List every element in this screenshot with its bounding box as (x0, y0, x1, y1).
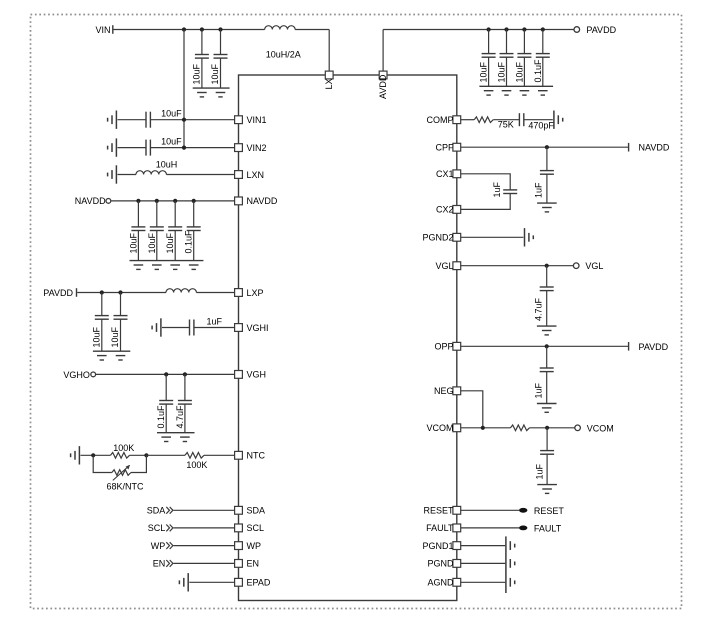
pin name VCOM (427, 423, 454, 433)
value label C11 (165, 232, 175, 253)
svg-text:75K: 75K (498, 119, 514, 129)
capacitor C22 1uF (540, 368, 554, 372)
port marker RESET (519, 508, 527, 513)
pin name NAVDD (247, 196, 278, 206)
resistor R4 (511, 425, 530, 431)
port tick PAVDD right (628, 342, 630, 351)
value label RT1 (107, 482, 145, 492)
wire VGHO rail (96, 373, 235, 375)
ground bar PGND1 PGND AGND (505, 536, 507, 593)
svg-text:VIN: VIN (95, 25, 110, 35)
pin VGL (453, 262, 461, 270)
svg-text:10uH/2A: 10uH/2A (266, 50, 301, 60)
port chevron SDA (166, 507, 173, 514)
wire C18 to ground (524, 119, 553, 121)
value label C20 (492, 181, 502, 197)
svg-text:VGH: VGH (247, 370, 267, 380)
capacitor C2 10uF (214, 55, 228, 59)
terminal NAVDD (106, 199, 111, 204)
pin name PGND (427, 559, 454, 569)
capacitor C7 10uF (146, 112, 150, 128)
wire C19 to ground (546, 174, 548, 203)
wire C14 to ground (120, 319, 122, 351)
capacitor C14 10uF (114, 316, 128, 320)
svg-text:0.1uF: 0.1uF (156, 405, 166, 429)
svg-text:10uF: 10uF (497, 61, 507, 82)
wire C5 to ground (523, 57, 525, 86)
svg-text:OPP: OPP (434, 342, 453, 352)
terminal VCOM (575, 425, 581, 431)
svg-text:4.7uF: 4.7uF (175, 405, 185, 429)
pin name CPF (436, 143, 455, 153)
ground C15 (152, 318, 161, 336)
inductor L3 (166, 289, 196, 293)
junction VIN/C2 (218, 27, 222, 31)
pin CPF (453, 143, 461, 151)
svg-text:VIN1: VIN1 (247, 115, 267, 125)
pin name LXN (247, 170, 265, 180)
capacitor C10 10uF (150, 227, 164, 231)
pin VGH (235, 371, 243, 379)
capacitor C13 10uF (95, 316, 109, 320)
pin name CX2 (436, 205, 454, 215)
pin EN (235, 560, 243, 568)
wire CPF to NAVDD (461, 146, 628, 148)
wire C20 to CX2 (461, 194, 510, 210)
pin name EN (247, 559, 260, 569)
value label C13 (92, 326, 102, 347)
wire to C9 (137, 201, 139, 227)
wire R3 to C18 (493, 119, 519, 121)
wire PGND2 (461, 236, 524, 238)
wire C12 to ground (193, 231, 195, 261)
ground C1 C2 (193, 88, 230, 97)
junction VG/C21 (545, 264, 549, 268)
pin FAULT (453, 524, 461, 532)
wire C23 to ground (546, 454, 548, 484)
node PAVDD label (586, 25, 616, 35)
wire C8 to VIN2 (150, 147, 234, 149)
wire C4 to ground (506, 57, 508, 86)
svg-text:AGND: AGND (427, 578, 454, 588)
wire to C14 (120, 293, 122, 316)
svg-text:CPF: CPF (436, 143, 455, 153)
node SDA label (147, 506, 166, 516)
value label C2 (210, 63, 220, 84)
wire C13 to ground (101, 319, 103, 351)
svg-text:4.7uF: 4.7uF (534, 297, 544, 321)
ground C21 (537, 326, 557, 335)
junction AVDD/C6 (541, 27, 545, 31)
junction NTC right (144, 453, 148, 457)
wire to C1 (201, 30, 203, 55)
capacitor C6 0.1uF (536, 54, 550, 58)
svg-text:SCL: SCL (247, 523, 265, 533)
pin name LXP (247, 288, 264, 298)
ground PGND2 (525, 228, 534, 246)
wire NEG to VCOM node (461, 391, 483, 428)
pin name CX1 (436, 169, 454, 179)
wire VG to VGL (461, 265, 574, 267)
svg-text:NAVDD: NAVDD (247, 196, 278, 206)
junction PAVDD/C14 (118, 290, 122, 294)
wire R2 to NTC pin (204, 454, 235, 456)
svg-text:10uF: 10uF (161, 136, 182, 146)
svg-text:SCL: SCL (148, 523, 166, 533)
junction NAVDD/C10 (155, 199, 159, 203)
pin NTC (235, 451, 243, 459)
pin name AVDD (378, 74, 388, 99)
wire to C13 (101, 293, 103, 316)
value label C16 (156, 405, 166, 429)
value label C12 (184, 230, 194, 254)
svg-text:CX1: CX1 (436, 169, 454, 179)
svg-text:PGND: PGND (427, 559, 454, 569)
value label C1 (192, 63, 202, 84)
wire to C10 (156, 201, 158, 227)
pin name RESET (423, 506, 454, 516)
pin name PGND2 (422, 233, 453, 243)
ground C19 (537, 203, 557, 212)
value label C4 (497, 61, 507, 82)
value label R2 (186, 460, 207, 470)
junction CPF/C19 (545, 145, 549, 149)
wire L2 to LXN (166, 174, 234, 176)
pin CX1 (453, 170, 461, 178)
pin CX2 (453, 206, 461, 214)
ground C16 C17 (157, 433, 195, 442)
value label C7 (161, 109, 182, 119)
terminal VGHO (91, 372, 96, 377)
value label C14 (110, 326, 120, 347)
pin WP (235, 542, 243, 550)
svg-text:PAVDD: PAVDD (43, 288, 73, 298)
port tick PAVDD (76, 288, 78, 297)
capacitor C17 (178, 401, 192, 405)
pin name VIN2 (247, 143, 267, 153)
svg-text:100K: 100K (186, 460, 207, 470)
pin NAVDD (235, 197, 243, 205)
value label C18 (528, 120, 554, 130)
capacitor C5 10uF (517, 54, 531, 58)
pin name NEG (434, 386, 454, 396)
svg-text:LXP: LXP (247, 288, 264, 298)
pin LXP (235, 289, 243, 297)
wire C15 to VGHI (194, 327, 235, 329)
svg-text:SDA: SDA (247, 506, 266, 516)
junction AVDD/C5 (522, 27, 526, 31)
port chevron WP (166, 542, 173, 549)
pin LXN (235, 171, 243, 179)
ground COMP (554, 111, 563, 129)
ground VIN1 cap (108, 111, 117, 129)
wire AVDD pin up (382, 30, 384, 72)
pin PGND2 (453, 233, 461, 241)
ground C9-C12 (130, 261, 204, 270)
svg-text:10uF: 10uF (514, 61, 524, 82)
junction AVDD/C4 (504, 27, 508, 31)
resistor R2 100K (185, 453, 204, 459)
wire C21 to ground (546, 291, 548, 327)
wire EPAD (189, 581, 234, 583)
wire VIN rail (114, 29, 265, 31)
capacitor C19 1uF (540, 171, 554, 175)
capacitor C15 1uF (190, 320, 194, 336)
pin AVDD (379, 71, 387, 79)
svg-text:SDA: SDA (147, 506, 166, 516)
pin name SCL (247, 523, 265, 533)
svg-text:NAVDD: NAVDD (75, 196, 106, 206)
pin COMP (453, 116, 461, 124)
ground C22 (537, 404, 557, 413)
pin name SDA (247, 506, 266, 516)
wire VIN down to VIN1/VIN2 (183, 30, 185, 148)
wire SDA (174, 509, 235, 511)
junction NAVDD/C12 (192, 199, 196, 203)
wire gnd to L2 (118, 174, 137, 176)
wire C16 to ground (165, 404, 167, 433)
node VGHO label (63, 370, 90, 380)
svg-text:EN: EN (247, 559, 260, 569)
ground L2 (108, 165, 117, 183)
capacitor C16 (159, 401, 173, 405)
capacitor C4 10uF (500, 54, 514, 58)
pin name VGHI (247, 323, 269, 333)
ground VIN2 cap (108, 138, 117, 156)
wire C3 to ground (488, 57, 490, 86)
pin PGND1 (453, 542, 461, 550)
wire to C21 (546, 266, 548, 287)
svg-text:10uF: 10uF (210, 63, 220, 84)
ground NTC network (71, 446, 80, 464)
node NAVDD label (75, 196, 106, 206)
svg-text:VGHO: VGHO (63, 370, 90, 380)
wire to C4 (506, 30, 508, 54)
wire PGND1 (461, 545, 505, 547)
value label C21 (534, 297, 544, 321)
inductor L2 10uH (136, 171, 166, 175)
ground C3-C6 (479, 86, 553, 95)
svg-text:PGND1: PGND1 (422, 541, 453, 551)
ground EPAD (179, 573, 188, 591)
wire down to LX pin (328, 30, 330, 72)
wire L3 to LXP (196, 292, 234, 294)
ground C23 (537, 485, 557, 494)
svg-text:VIN2: VIN2 (247, 143, 267, 153)
value label C5 (514, 61, 524, 82)
svg-text:1uF: 1uF (207, 317, 223, 327)
wire AGND (461, 581, 505, 583)
capacitor C1 10uF (195, 55, 209, 59)
wire to C17 (184, 374, 186, 400)
wire OPP to PAVDD (461, 345, 628, 347)
svg-text:470pF: 470pF (528, 120, 554, 130)
wire to C12 (193, 201, 195, 227)
node WP label (151, 541, 166, 551)
wire R4 to VCOM terminal (530, 427, 575, 429)
pin AGND (453, 578, 461, 586)
svg-text:EN: EN (153, 559, 166, 569)
svg-text:NAVDD: NAVDD (639, 143, 670, 153)
capacitor C12 0.1uF (187, 227, 201, 231)
svg-text:RESET: RESET (534, 506, 565, 516)
svg-text:CX2: CX2 (436, 205, 454, 215)
pin VIN2 (235, 144, 243, 152)
wire C11 to ground (174, 231, 176, 261)
wire NAVDD rail (111, 200, 234, 202)
svg-text:VGL: VGL (435, 261, 453, 271)
port marker FAULT (519, 526, 527, 531)
IC U1 main body (239, 75, 457, 601)
value label L1 (266, 50, 301, 60)
terminal VGL (573, 263, 579, 269)
value label C22 (534, 382, 544, 398)
svg-text:1uF: 1uF (534, 463, 544, 479)
value label C23 (534, 463, 544, 479)
value label C3 (479, 61, 489, 82)
svg-text:1uF: 1uF (534, 382, 544, 398)
value label C19 (534, 182, 544, 198)
node VCOM label (587, 423, 614, 433)
svg-text:VGL: VGL (585, 261, 603, 271)
port tick VIN (112, 25, 114, 34)
wire L1 to LX (295, 29, 329, 31)
wire SCL (174, 527, 235, 529)
pin name EPAD (247, 578, 271, 588)
pin name PGND1 (422, 541, 453, 551)
svg-text:FAULT: FAULT (534, 523, 562, 533)
ground marks PGND (510, 559, 514, 568)
wire gnd to C7 (118, 119, 147, 121)
svg-text:1uF: 1uF (492, 181, 502, 197)
svg-text:10uF: 10uF (161, 109, 182, 119)
inductor L1 10uH/2A (265, 26, 295, 30)
wire C9 to ground (137, 231, 139, 261)
pin SCL (235, 524, 243, 532)
svg-text:PAVDD: PAVDD (586, 25, 616, 35)
wire C22 to ground (546, 372, 548, 404)
pin RESET (453, 506, 461, 514)
junction PAVDD/C13 (100, 290, 104, 294)
value label R1 (113, 443, 134, 453)
svg-text:WP: WP (151, 541, 166, 551)
pin name VGL (435, 261, 453, 271)
svg-text:PAVDD: PAVDD (639, 342, 669, 352)
svg-text:10uF: 10uF (165, 232, 175, 253)
terminal PAVDD (574, 27, 580, 33)
svg-text:PGND2: PGND2 (422, 233, 453, 243)
pin name WP (247, 541, 262, 551)
junction NEG/VCOM (481, 426, 485, 430)
svg-text:10uF: 10uF (192, 63, 202, 84)
svg-text:NEG: NEG (434, 386, 454, 396)
wire to C23 (546, 428, 548, 451)
svg-text:WP: WP (247, 541, 262, 551)
svg-text:10uF: 10uF (147, 232, 157, 253)
wire to C3 (488, 30, 490, 54)
pin EPAD (235, 578, 243, 586)
wire to C5 (523, 30, 525, 54)
wire PAVDD to L3 (77, 292, 166, 294)
wire C10 to ground (156, 231, 158, 261)
pin name FAULT (426, 523, 454, 533)
node RESET label (534, 506, 565, 516)
port tick NAVDD right (628, 143, 630, 152)
svg-text:EPAD: EPAD (247, 578, 271, 588)
wire COMP to R3 (461, 119, 474, 121)
svg-text:NTC: NTC (247, 451, 266, 461)
capacitor C3 10uF (482, 54, 496, 58)
wire to C16 (165, 374, 167, 400)
capacitor C8 10uF (146, 140, 150, 156)
ground marks AGND (510, 578, 514, 587)
wire FAULT (461, 527, 519, 529)
wire to C6 (542, 30, 544, 54)
junction VCOM/C23 (545, 426, 549, 430)
svg-text:LX: LX (324, 78, 334, 89)
svg-text:0.1uF: 0.1uF (184, 230, 194, 254)
wire to C19 (546, 147, 548, 170)
wire CX1 to C20 (461, 174, 510, 190)
svg-text:0.1uF: 0.1uF (533, 59, 543, 83)
svg-text:COMP: COMP (427, 115, 454, 125)
wire junction to R2 (146, 454, 185, 456)
value label C10 (147, 232, 157, 253)
capacitor C9 10uF (131, 227, 145, 231)
wire R1 to junction (130, 454, 147, 456)
node FAULT label (534, 523, 562, 533)
value label C17 (175, 405, 185, 429)
node VGL label (585, 261, 603, 271)
value label C6 (533, 59, 543, 83)
pin name OPP (434, 342, 453, 352)
node EN label (153, 559, 166, 569)
capacitor C18 470pF (519, 113, 523, 126)
junction VGH/C16 (164, 372, 168, 376)
junction NAVDD/C11 (173, 199, 177, 203)
svg-text:10uF: 10uF (479, 61, 489, 82)
junction VIN/VIN2 (182, 146, 186, 150)
ground C13 C14 (93, 351, 130, 360)
ground marks PGND1 (510, 541, 514, 550)
node PAVDD label left (43, 288, 73, 298)
pin name VGH (247, 370, 267, 380)
junction OPP/C22 (545, 344, 549, 348)
svg-text:10uF: 10uF (92, 326, 102, 347)
wire PGND (461, 562, 505, 564)
svg-text:68K/NTC: 68K/NTC (107, 482, 145, 492)
svg-text:VCOM: VCOM (427, 423, 454, 433)
svg-text:VGHI: VGHI (247, 323, 269, 333)
wire AVDD rail (383, 29, 574, 31)
wire C7 to VIN1 (150, 119, 234, 121)
value label C15 (207, 317, 223, 327)
svg-text:VCOM: VCOM (587, 423, 614, 433)
wire to RT1 (93, 455, 112, 472)
wire C1 to ground (201, 58, 203, 88)
wire to C11 (174, 201, 176, 227)
junction VIN/VIN1 (182, 118, 186, 122)
junction VIN/C1 (200, 27, 204, 31)
pin VIN1 (235, 116, 243, 124)
svg-text:FAULT: FAULT (426, 523, 454, 533)
pin name COMP (427, 115, 454, 125)
wire WP (174, 545, 235, 547)
pin name AGND (427, 578, 454, 588)
pin VGHI (235, 324, 243, 332)
pin name VIN1 (247, 115, 267, 125)
junction VGH/C17 (183, 372, 187, 376)
